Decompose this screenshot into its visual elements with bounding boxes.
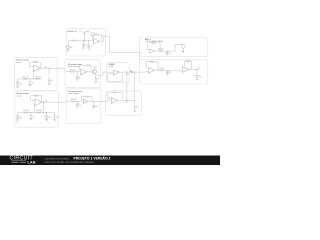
wire output C to D [96,72,114,75]
footer bar [0,156,220,166]
op-amp U3 [148,68,154,74]
wire feedback loop right [89,97,92,102]
wire meter to op-amp [92,36,94,38]
svg-text:1k: 1k [51,80,53,82]
wire to op-amp H [76,100,84,102]
ground [166,73,169,75]
node TP2 [126,100,127,101]
wire source leg [17,113,19,116]
wire feedback loop below U7 [108,72,123,82]
svg-text:R12 1k: R12 1k [35,76,41,78]
svg-text:RL: RL [130,70,132,72]
node [93,101,94,102]
module box I (output, bottom middle-right) [106,91,142,115]
wire output H [88,100,107,101]
ground [82,47,86,49]
voltage source V1 [67,45,70,48]
wire input stub U5 [33,66,34,68]
wire input C [65,71,70,73]
wire feedback loop U8 [30,96,42,102]
resistor R8 feedback [186,60,190,62]
ground [87,48,91,50]
svg-text:canal 1 monitor: canal 1 monitor [68,65,80,68]
op-amp U1 [94,38,100,44]
ground [165,53,168,55]
ground dot [134,110,136,111]
svg-text:canal 2 monitor: canal 2 monitor [68,92,80,95]
wire collector up [93,68,95,70]
wire cap leg [30,113,32,116]
ground [75,79,79,81]
capacitor C2 [87,41,90,48]
op-amp U7 [114,70,120,75]
capacitor C5 [194,76,200,79]
module box filter E (right, second row) [140,60,208,85]
ground [66,49,70,53]
svg-text:1u: 1u [33,117,35,119]
svg-text:canal 1: canal 1 [16,62,22,64]
module box F (Monitor, mid-left) [15,57,57,90]
voltage source V4 [45,115,48,118]
svg-text:R7 1k: R7 1k [160,68,165,70]
wire feedback loop right [117,93,122,101]
ground [16,119,20,122]
wire cap leg [29,79,31,82]
wire feedback loop U10 [108,93,113,99]
ground [47,84,51,86]
svg-text:1u: 1u [200,77,202,79]
wire vertical at box edge gap [139,52,141,59]
svg-text:1u: 1u [85,45,87,47]
source plus V1 [68,46,69,48]
node G out [43,102,44,103]
capacitor C11 [92,105,95,107]
wire cap leg [76,101,78,103]
capacitor C3 [166,51,169,53]
wire feedback loop U5 [29,62,40,68]
voltage source V2 [16,82,19,85]
wire source2 leg [45,113,47,116]
svg-text:R11 1k: R11 1k [23,76,29,78]
output port circle P1 [181,45,185,49]
svg-text:1u: 1u [91,45,93,47]
svg-text:R21 1k: R21 1k [71,99,77,101]
ground dot [196,79,197,80]
svg-text:R20 1k: R20 1k [36,110,42,112]
node dot G rail b [34,112,35,113]
node dot box1 b [88,40,89,41]
resistor R12 [35,78,40,80]
op-amp U2 [150,49,155,53]
svg-text:LAB: LAB [27,161,35,165]
wire input U4 stub [180,69,183,72]
wire port down [182,48,184,51]
svg-text:1u: 1u [169,52,171,54]
module box G (source, bottom-left) [15,91,59,127]
node F out [49,68,50,69]
svg-text:x1 CA: x1 CA [108,65,114,68]
node out port [196,69,197,70]
resistor R3 feedback [95,34,99,36]
meter circle M1 [91,32,95,36]
resistor R17 feedback [34,95,38,97]
capacitor C8 [76,77,79,79]
wire input U3 [140,71,149,74]
source plus V3 [17,116,18,118]
resistor R6 feedback [150,61,154,63]
wire feedback loop U6 [79,65,86,70]
resistor R22 feedback [85,96,89,98]
op-amp U6 [80,69,86,75]
wire node TP1 down to box I output [126,72,128,100]
wire output U6 [87,71,93,73]
wire output F to C [40,68,65,72]
node dot F rail a [30,78,31,79]
net flag [135,106,138,108]
resistor R20 [36,112,41,114]
capacitor C9 [30,116,33,119]
wire source leg [17,79,19,82]
svg-text:MODULO 1: MODULO 1 [67,31,77,33]
wire emitter down [95,74,97,78]
transistor Q1 [92,69,96,73]
node dot box1 c [84,40,85,41]
wire MODULO1 output to AMP box [106,37,140,53]
svg-text:1u: 1u [32,83,34,85]
wire input stubs U2 [146,49,150,51]
module box H (filter, bottom middle) [66,89,101,124]
node dot F rail b [33,78,34,79]
svg-text:1u: 1u [170,72,172,74]
wire output U4 [189,70,197,76]
node dot box1 a [83,40,84,41]
wire input I [107,99,111,101]
node TP1 [126,72,127,73]
svg-text:R1: R1 [79,31,81,33]
svg-text:http://circuitlab.com/c4sfmkmy: http://circuitlab.com/c4sfmkmy8pkae [44,160,94,164]
module box AMP GANHO (top right) [140,37,208,56]
svg-text:+20 dB CA AMP SAIDA: +20 dB CA AMP SAIDA [145,40,164,43]
potentiometer R1 vertical [83,31,86,41]
wire main [68,40,71,42]
capacitor C10 [76,104,79,106]
resistor R10 load [48,79,50,83]
svg-text:TP1: TP1 [126,74,129,76]
svg-text:1u: 1u [79,104,81,106]
node [77,71,78,72]
wire source top [67,41,69,46]
op-amp U9 [83,99,88,103]
svg-text:R19 1k: R19 1k [23,110,29,112]
ground [28,85,32,87]
resistor R7 [160,69,165,71]
node [77,101,78,102]
node dot G rail a [31,112,32,113]
svg-text:10k: 10k [86,31,89,33]
resistor R4 feedback [151,42,155,44]
wire branch down to flag [134,72,136,106]
wire input H [66,100,71,102]
op-amp U4 [183,67,190,73]
wire cap leg [76,72,78,77]
resistor R21 [71,100,76,102]
ground [92,107,96,109]
wire flag stem [134,108,136,110]
op-amp U5 [34,65,41,71]
resistor R2 [72,40,77,42]
svg-text:TP2: TP2 [125,102,128,104]
wire rail F [18,78,42,80]
svg-text:1k: 1k [97,78,99,80]
wire output jog [99,37,105,42]
resistor R9 feedback [33,61,37,63]
resistor R14 feedback [86,64,90,66]
wire feedback loop U4 [185,61,192,70]
op-amp U8 [35,99,42,106]
wire load resistor leg [54,113,56,116]
wire rail G [18,112,55,114]
wire cap leg 2 [93,101,95,105]
wire op-amp input leg F [32,70,34,79]
wire node down [48,68,50,79]
ground [94,81,98,83]
svg-text:1n: 1n [96,106,98,108]
resistor R24 feedback [113,92,117,94]
wire output U2 [154,50,158,52]
voltage source V3 [16,116,19,119]
ground [45,119,49,122]
node dot G rail c [43,112,44,113]
svg-text:1k: 1k [56,117,58,119]
resistor R5 [159,50,164,52]
wire output G to H [42,101,66,103]
wire feedback loop U2 [148,43,160,51]
ground [16,85,20,89]
wire output U3 [154,69,159,71]
resistor R19 [23,112,28,114]
module box D [107,63,130,83]
wire input stub U8 [33,99,35,101]
wire feedback loop right [89,65,92,72]
wire feedback loop U9 [82,97,85,100]
wire output D [119,71,140,73]
wire after R7 [164,69,180,71]
svg-text:V1: V1 [198,68,200,70]
svg-text:1u: 1u [79,78,81,80]
svg-text:canal 2: canal 2 [17,95,23,97]
resistor R11 [23,78,28,80]
ground [76,106,80,108]
wire feedback loop U3 [146,62,158,71]
module box MODULO 1 [66,29,105,56]
wire up to port [175,44,183,51]
source plus V4 [46,116,47,118]
svg-text:R13 1k: R13 1k [70,69,76,71]
wire output I [118,99,135,101]
wire to op-amp [74,71,80,73]
ground [29,118,33,120]
svg-text:R5 1k: R5 1k [159,49,164,51]
node dot G rail d [46,112,47,113]
ground [53,120,57,122]
capacitor C6 [29,82,32,85]
logo lines [12,161,27,162]
wire node down [43,102,45,112]
resistor R15 [95,77,97,81]
capacitor C4 [166,70,169,73]
source plus V2 [17,82,18,84]
wire main 2 [76,40,94,42]
ground [182,51,184,53]
wire feedback loop right [99,35,101,42]
capacitor C1 [82,41,85,47]
module box C (filter, middle) [65,59,100,87]
op-amp U10 [111,98,117,104]
transistor Q1 internals [93,70,95,73]
wire feedback loop [93,35,95,40]
resistor R18 load [54,115,56,119]
resistor R16 on wire [130,71,134,73]
wire after R5 [163,50,175,52]
resistor R13 [70,71,74,73]
wire op-amp input leg G [33,104,35,113]
